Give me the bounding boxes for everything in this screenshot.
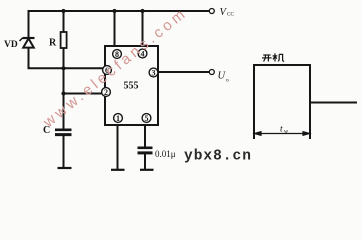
开 <box>263 54 270 56</box>
pin 5 <box>142 114 151 123</box>
svg-text:w: w <box>284 129 288 135</box>
svg-text:VD: VD <box>4 40 18 50</box>
pin 4 <box>138 49 147 58</box>
capacitor C <box>55 130 72 135</box>
svg-text:R: R <box>49 38 57 49</box>
wire C to ground <box>63 136 65 167</box>
svg-text:CC: CC <box>227 11 234 17</box>
node junction dot R bottom <box>61 66 65 70</box>
svg-text:2: 2 <box>104 88 108 97</box>
svg-text:ybx8.cn: ybx8.cn <box>184 149 252 165</box>
wire pin2 horizontal <box>64 93 106 95</box>
svg-text:o: o <box>226 77 229 83</box>
ground C2 <box>140 169 154 171</box>
wire resistor top <box>63 11 65 32</box>
wire C2 to ground <box>144 155 146 170</box>
pin 6 <box>103 66 112 75</box>
svg-text:3: 3 <box>152 68 156 77</box>
svg-text:0.01μ: 0.01μ <box>155 149 176 159</box>
机 <box>274 53 276 61</box>
waveform pulse <box>254 65 356 138</box>
pin 1 <box>114 114 123 123</box>
ground C <box>58 167 72 169</box>
node junction dot pin4 <box>140 9 144 13</box>
diode VD <box>20 38 35 48</box>
node junction dot pin8 <box>112 9 116 13</box>
wire pin4 vertical <box>142 11 144 46</box>
wire top rail Vcc <box>29 10 210 12</box>
op-amp U1 555 IC body <box>105 46 158 125</box>
pin 8 <box>113 50 122 59</box>
capacitor C2 0.01u <box>138 148 153 153</box>
node junction dot pin2 branch <box>61 91 65 95</box>
wire resistor bottom / left vertical bus <box>63 48 65 129</box>
wire diode branch upper <box>28 11 30 38</box>
svg-text:t: t <box>280 125 283 135</box>
terminal Vcc <box>209 9 214 14</box>
wire pin1 ground <box>117 125 119 169</box>
svg-text:555: 555 <box>124 81 139 92</box>
label 开机 (drawn strokes) <box>262 53 284 61</box>
svg-text:5: 5 <box>145 114 149 123</box>
wire pin8 vertical <box>114 11 116 46</box>
dimension tw arrows <box>255 132 310 136</box>
node junction dot R top <box>61 9 65 13</box>
wire pin3 output <box>158 71 209 73</box>
ground pin1 <box>111 169 125 171</box>
wire diode branch lower <box>29 48 106 69</box>
resistor R <box>61 32 67 48</box>
pin 3 <box>149 68 158 77</box>
terminal Uo <box>209 70 214 75</box>
svg-text:1: 1 <box>116 114 120 123</box>
pin 2 <box>102 88 111 97</box>
wire pin5 to C2 <box>144 125 146 147</box>
